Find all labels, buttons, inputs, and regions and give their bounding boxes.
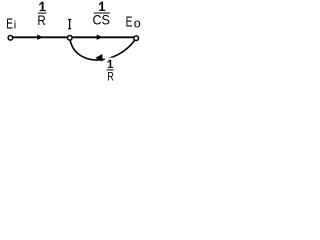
svg-text:CS: CS [93, 11, 110, 27]
svg-text:R: R [37, 12, 45, 28]
svg-text:o: o [134, 17, 141, 31]
svg-text:i: i [14, 20, 16, 32]
svg-text:E: E [126, 15, 133, 31]
svg-text:E: E [6, 16, 13, 32]
svg-text:R: R [107, 69, 114, 83]
